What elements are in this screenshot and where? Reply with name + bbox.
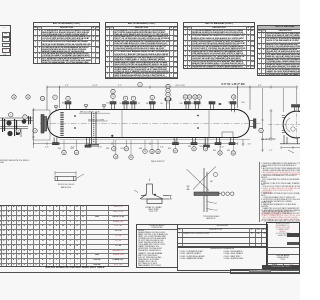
svg-text:2'-8": 2'-8" [98,147,102,149]
end view left vertical dimension [270,109,273,141]
balloon L6 [40,96,44,100]
svg-text:TYP: TYP [214,210,218,212]
internal leader note 2 [88,120,108,122]
balloon leader B11 [205,140,207,147]
balloon leader B8 [157,140,159,149]
top dimension line [47,86,297,110]
BOM table 3 [183,22,255,70]
small mark a [210,102,212,104]
weld dot 3 [197,115,199,117]
left piping valve 1 [6,120,11,125]
right side vertical dimension [261,88,264,152]
top nozzle N10 [194,102,200,110]
detail D2 dim ticks [134,179,172,200]
end view extension line left [282,88,284,112]
top nozzle N4 [110,102,116,110]
balloon B7 [150,149,154,153]
end view bottom dimension [281,146,300,149]
end view circle [283,111,310,138]
weld dot 4 [197,127,199,129]
detail D3 weld symbol circle [214,173,218,177]
balloon B8 [156,149,160,153]
svg-text:N4: N4 [107,103,109,105]
balloon T1 [111,89,115,93]
left piping flange stack 3 [29,116,31,125]
end view left ticks 2 [282,131,285,133]
vessel left head [48,110,60,138]
balloon T2 [111,94,115,98]
balloon L5 [26,95,30,99]
vessel shell [60,110,238,138]
BOM table 2 [105,22,178,80]
svg-text:N12: N12 [228,102,231,104]
detail D1 leader [76,174,84,179]
sheet bottom border [0,271,300,274]
coupling stub 2 [103,105,106,110]
balloon leader T3 [125,101,127,105]
balloon T6 [166,84,170,88]
balloon B11 [203,147,207,151]
bottom nozzle B2 [85,138,91,148]
balloon leader B2 [113,140,115,147]
coupling stub head [55,106,58,111]
balloon leader T5 [151,100,153,104]
balloon leader T2 [112,99,114,105]
detail D1 pipe spool [55,177,76,181]
svg-text:N5: N5 [120,103,122,105]
title block [266,222,301,274]
svg-text:N9: N9 [161,103,163,105]
left piping valve 2 [22,119,27,124]
balloon leader T8 [167,97,169,104]
svg-text:N11: N11 [191,103,194,105]
small mark b [219,103,222,105]
head nozzle N12 [230,102,236,113]
svg-text:1'-6": 1'-6" [45,147,49,149]
balloon T11 [187,95,191,99]
top nozzle N3 [65,102,71,110]
balloon T3 [123,96,127,100]
end view top nozzle [292,105,301,112]
codes and design conditions box [136,224,178,268]
detail D2 weld dot [154,194,156,196]
balloon T0 [66,96,70,100]
end view extension line center [296,88,298,104]
shell weld seam 2 [208,110,210,138]
bottom nozzle B1 [53,138,59,145]
left piping pipe 2 [0,127,28,129]
balloon leader B5 [130,140,132,155]
left piping valve 3 [7,131,12,136]
balloon B6 [143,149,147,153]
svg-text:N20: N20 [188,146,191,148]
svg-text:N21: N21 [200,146,203,148]
svg-text:N16: N16 [106,148,109,150]
balloon T10 [183,95,187,99]
svg-text:N17: N17 [121,148,124,150]
reference drawings block [177,247,269,272]
vessel right head [238,110,250,138]
shell bottom parallel line [60,139,251,141]
balloon L4 [12,95,16,99]
balloon leader B1 [76,140,78,150]
detail D3 left dim arrow [187,186,190,190]
balloon leader B4 [115,140,117,155]
balloon leader T11 [189,99,191,104]
left piping flange stack 2 [3,118,5,132]
internal pad rect [222,132,233,138]
svg-text:N10: N10 [180,103,183,105]
left legend box [0,25,11,56]
end view horizontal centerline [268,124,300,126]
balloon T12 [193,95,197,99]
top nozzle N9 [184,102,190,110]
left vertical dimension line [32,108,35,148]
svg-text:N19: N19 [168,148,171,150]
svg-text:12'-6": 12'-6" [92,85,98,87]
balloon B3 [124,147,128,151]
balloon B10 [192,147,196,151]
top nozzle N8 [165,98,171,109]
balloon L0 [9,113,13,117]
coupling stub 1 [85,105,88,110]
detail D2 pad plate [147,199,162,204]
balloon leader B10 [193,140,195,147]
balloon T7 [166,88,170,92]
detail D3 top note [151,161,165,163]
balloon B5 [129,155,133,159]
top nozzle N5 [123,102,129,110]
bottom nozzle B7 [229,138,235,145]
end view internal small circle [291,127,295,131]
bottom nozzle B5 [204,138,210,148]
internal leader note 1 [79,112,110,114]
detail D3 chain circles [219,192,234,196]
detail D3 horizontal plate dark band [194,192,219,196]
balloon T14 [232,95,236,99]
end view vertical centerline [296,106,298,143]
top nozzle N7 [149,102,155,110]
balloon B9 [173,149,177,153]
balloon B1 [74,150,78,154]
revisions table [177,224,269,247]
svg-text:1/4: 1/4 [214,203,217,205]
svg-text:N13: N13 [242,102,245,104]
top nozzle N6 [130,102,136,110]
note near end view [261,139,276,141]
detail D2 weld fillets [140,194,163,199]
internal dip pipe [89,112,100,146]
svg-text:4'-6": 4'-6" [248,144,252,146]
end view left ticks 1 [282,116,285,118]
svg-text:MIN LIQ LEVEL 24 IN: MIN LIQ LEVEL 24 IN [80,112,100,114]
balloon leader T4 [132,101,134,105]
end view side nozzle on head apex [250,119,256,128]
end view lower leader [288,150,294,153]
detail D3 lower leaders [207,202,214,211]
svg-text:6'-3" I.D. x 24'-0" S/S: 6'-3" I.D. x 24'-0" S/S [221,83,245,86]
detail D1 caption [53,184,79,188]
left piping pipe 1 [0,118,33,121]
end view support legs [280,135,300,144]
svg-text:N15: N15 [71,148,74,150]
left head flange assembly [41,115,48,134]
general notes block [259,162,303,222]
balloon leader T0 [67,101,69,104]
svg-text:3'-0": 3'-0" [220,147,224,149]
BOM table 1 [33,22,100,65]
detail D3 weld X marks [187,167,217,191]
balloon leader B7 [151,140,153,149]
bottom nozzle B4 [191,138,197,145]
svg-text:N6: N6 [128,103,130,105]
svg-text:5'-4": 5'-4" [160,147,164,149]
title block bottom row [230,269,300,273]
balloon T13 [197,95,201,99]
bottom dimension line [34,142,238,145]
BOM table 4 [257,25,313,77]
title block pink note above [262,213,296,217]
svg-text:NORM LIQ LEVEL: NORM LIQ LEVEL [88,119,106,121]
weld dot 1 [74,115,76,117]
left piping detail box [33,110,50,140]
bottom nozzle B3 [173,138,179,145]
balloon leader B0 [63,140,65,150]
balloon B2 [112,147,116,151]
weld dot 5 [111,135,113,137]
balloon B4 [114,155,118,159]
head bottom dim tick [242,139,245,146]
bottom nozzle B6 [215,138,221,145]
weld dot 2 [74,127,76,129]
svg-text:N23: N23 [227,150,230,152]
svg-text:3'-2": 3'-2" [65,85,69,87]
balloon L1 [23,115,27,119]
detail D3 caption [198,216,224,220]
balloon T5 [150,95,154,99]
top nozzle N11 [209,102,215,110]
balloon leader B12 [219,140,221,151]
nozzle schedule table [0,205,129,267]
balloon leader B13 [232,140,234,151]
balloon leader T10 [184,99,186,104]
svg-text:N3: N3 [62,103,64,105]
svg-text:5'-1": 5'-1" [118,85,122,87]
detail D2 caption [140,207,167,214]
balloon dim [138,82,142,86]
balloon leader B9 [174,140,176,149]
detail D2 shell plate [141,196,169,200]
balloon T4 [131,96,135,100]
svg-text:4'-9": 4'-9" [258,85,262,87]
end view internal arc [286,118,290,132]
balloon L3 [16,129,20,133]
shell weld seam 1 [121,110,123,138]
balloon T9 [166,97,170,101]
svg-text:N8: N8 [146,103,148,105]
detail D3 tee joint vertical [204,168,207,212]
detail D2 nozzle neck [147,184,153,194]
title block dark band [262,265,300,269]
balloon head stub [53,95,57,99]
balloon B0 [62,150,66,154]
balloon T8 [166,93,170,97]
svg-text:N22: N22 [213,150,216,152]
balloon leader T13 [198,99,200,104]
svg-text:N18: N18 [139,148,142,150]
stiffener ring marking band [60,112,63,136]
balloon head side [259,128,263,132]
schedule table caption [28,267,122,270]
vessel centerline [40,123,262,125]
svg-text:24'-0" S/S: 24'-0" S/S [175,85,185,87]
balloon B13 [231,151,235,155]
detail D1 dimension [55,171,76,175]
left piping drop line [20,129,22,138]
left piping flange stack 1 [15,119,17,136]
balloon L2 [33,129,37,133]
svg-text:N7: N7 [138,103,140,105]
balloon leader B3 [125,140,127,147]
balloon leader B6 [144,140,146,149]
left piping valve 4 [16,131,20,135]
balloon leader T12 [194,99,196,104]
note line left [0,160,30,164]
balloon B12 [218,151,222,155]
svg-text:2'-1": 2'-1" [269,150,273,152]
balloon leader T14 [233,99,235,104]
svg-text:N14: N14 [58,148,61,150]
svg-text:HB: HB [210,181,213,183]
